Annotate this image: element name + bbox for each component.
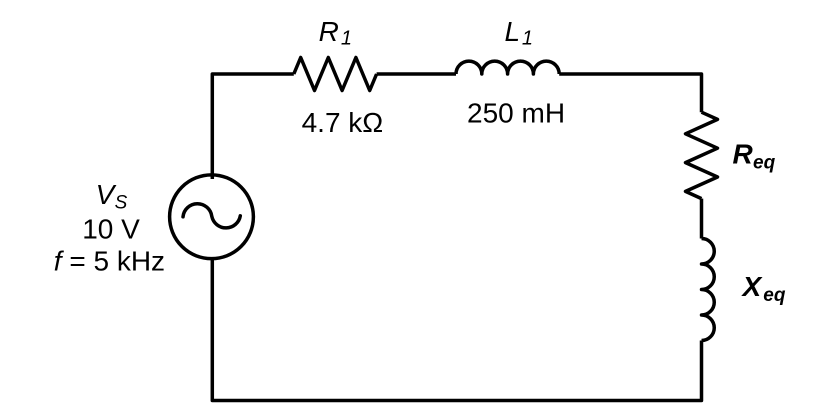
inductor L1 [456, 61, 559, 74]
AC source sine wave [183, 204, 240, 228]
resistor Req [686, 112, 718, 198]
svg-text:1: 1 [341, 28, 352, 50]
svg-text:eq: eq [763, 285, 786, 306]
svg-text:f = 5 kHz: f = 5 kHz [54, 246, 165, 277]
svg-text:X: X [741, 271, 764, 302]
svg-text:R: R [319, 16, 339, 47]
svg-text:S: S [115, 192, 128, 213]
inductor Xeq [702, 239, 715, 341]
wire Xeq to bottom-right corner, bottom wire, up to source [212, 258, 701, 401]
wire R1 to L1 [377, 72, 456, 76]
svg-text:10 V: 10 V [82, 214, 140, 245]
svg-text:1: 1 [522, 28, 533, 50]
svg-text:L: L [505, 16, 521, 47]
wire Req to Xeq [700, 199, 704, 239]
svg-text:R: R [733, 139, 754, 170]
svg-text:V: V [96, 179, 117, 210]
svg-text:eq: eq [753, 153, 776, 174]
resistor R1 [294, 58, 377, 91]
AC source V_S circle [170, 175, 254, 259]
svg-text:250 mH: 250 mH [467, 97, 565, 128]
wire L1 to top-right corner down to Req [559, 74, 701, 112]
svg-text:4.7 kΩ: 4.7 kΩ [302, 107, 384, 138]
wire top-left corner to R1 [212, 74, 293, 179]
